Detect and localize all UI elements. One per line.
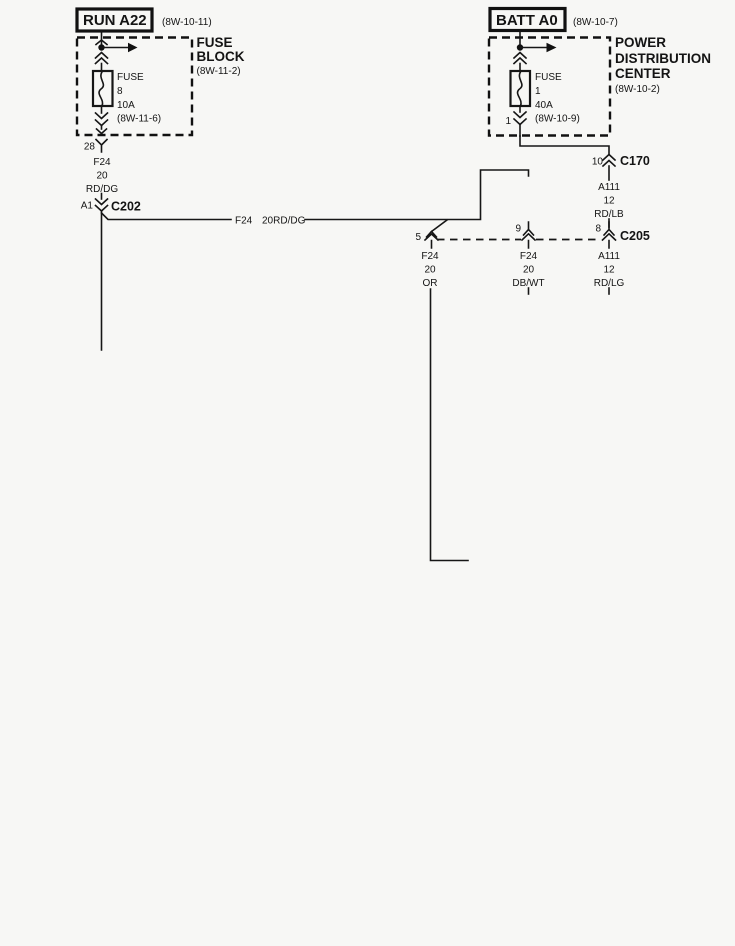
svg-text:40A: 40A bbox=[535, 100, 553, 111]
svg-text:BLOCK: BLOCK bbox=[197, 49, 245, 64]
wire from RUN A22 into fuse block bbox=[101, 31, 103, 44]
svg-text:20: 20 bbox=[523, 265, 535, 276]
pin 28 fork below fuse block bbox=[84, 140, 107, 153]
connector C202 (A1) bbox=[81, 199, 141, 214]
label FUSE BLOCK (8W-11-2) bbox=[197, 35, 245, 77]
svg-text:A111: A111 bbox=[598, 182, 620, 193]
svg-text:5: 5 bbox=[415, 232, 421, 243]
fuse F8 symbol bbox=[93, 71, 113, 106]
svg-text:BATT A0: BATT A0 bbox=[496, 12, 558, 29]
svg-text:FUSE: FUSE bbox=[535, 72, 562, 83]
svg-text:F24: F24 bbox=[520, 251, 538, 262]
svg-text:(8W-10-11): (8W-10-11) bbox=[162, 17, 212, 28]
svg-text:20: 20 bbox=[96, 171, 108, 182]
F24 OR wire down to blend door actuator branch bbox=[431, 289, 469, 561]
svg-text:10A: 10A bbox=[117, 100, 135, 111]
svg-text:F24: F24 bbox=[93, 157, 111, 168]
chevron at fuse block entry bbox=[96, 40, 107, 45]
fuse block dashed box bbox=[77, 38, 192, 136]
svg-text:CENTER: CENTER bbox=[615, 66, 671, 81]
svg-text:OR: OR bbox=[423, 278, 438, 289]
C205 pin 8 bbox=[595, 222, 615, 248]
wire node to fuse bbox=[101, 64, 103, 72]
RUN A22 label box bbox=[77, 9, 152, 31]
svg-text:28: 28 bbox=[84, 142, 96, 153]
BATT A0 label box bbox=[490, 9, 565, 31]
branch wire F24 to the right bbox=[102, 213, 232, 220]
wire to C202 bbox=[101, 194, 103, 200]
PDC dashed box bbox=[489, 38, 610, 136]
svg-text:20: 20 bbox=[424, 265, 436, 276]
pin 1 double chevron below fuse bbox=[505, 106, 526, 136]
wire to fuse bbox=[519, 64, 521, 72]
node with feed arrow bbox=[98, 43, 137, 52]
svg-text:DISTRIBUTION: DISTRIBUTION bbox=[615, 51, 711, 66]
svg-text:(8W-10-2): (8W-10-2) bbox=[615, 84, 660, 95]
svg-text:F24: F24 bbox=[235, 216, 253, 227]
fuse text FUSE 8 10A (8W-11-6) bbox=[117, 72, 161, 125]
svg-text:(8W-10-7): (8W-10-7) bbox=[573, 17, 618, 28]
svg-text:1: 1 bbox=[505, 116, 511, 127]
svg-text:POWER: POWER bbox=[615, 35, 666, 50]
double chevron below fuse bbox=[96, 106, 108, 134]
svg-text:8: 8 bbox=[117, 86, 123, 97]
svg-text:9: 9 bbox=[515, 224, 521, 235]
connector C170 (pin 10) bbox=[592, 154, 650, 168]
C205 pin 9 bbox=[515, 222, 535, 248]
svg-text:20RD/DG: 20RD/DG bbox=[262, 216, 306, 227]
svg-text:A111: A111 bbox=[598, 251, 620, 262]
horizontal wire continuing to right, up and over to C205 pin 9 bbox=[305, 170, 529, 220]
svg-text:C170: C170 bbox=[620, 154, 650, 168]
svg-text:12: 12 bbox=[603, 265, 615, 276]
svg-text:(8W-11-6): (8W-11-6) bbox=[117, 114, 161, 125]
svg-text:C202: C202 bbox=[111, 200, 141, 214]
fuse F1 symbol bbox=[511, 71, 531, 106]
svg-text:FUSE: FUSE bbox=[197, 35, 233, 50]
wire below C202 continuing down bbox=[101, 211, 103, 350]
wire label F24 20 DB/WT (below pin 9) bbox=[512, 251, 544, 289]
node with feed arrow bbox=[517, 43, 557, 52]
fuse text FUSE 1 40A (8W-10-9) bbox=[535, 72, 580, 125]
C205 dashed line (top row) bbox=[437, 239, 601, 241]
wire label A111 12 RD/LG (below pin 8) bbox=[594, 251, 625, 289]
wire below C170 bbox=[608, 166, 610, 180]
wire from BATT A0 into PDC bbox=[519, 31, 521, 45]
branch diagonal to C205 pin 5 bbox=[432, 220, 448, 232]
svg-text:(8W-10-9): (8W-10-9) bbox=[535, 114, 580, 125]
double chevron below node bbox=[514, 53, 526, 64]
wire to relay pin 4 bbox=[608, 288, 610, 294]
svg-text:C205: C205 bbox=[620, 229, 650, 243]
label POWER DISTRIBUTION CENTER (8W-10-2) bbox=[615, 35, 711, 95]
svg-text:1: 1 bbox=[535, 86, 541, 97]
wire label A111 12 RD/LB bbox=[594, 182, 624, 220]
svg-text:(8W-11-2): (8W-11-2) bbox=[197, 66, 241, 77]
wire to relay pin 5 bbox=[528, 288, 530, 294]
wire label F24 20RD/DG on horizontal run bbox=[235, 216, 306, 227]
svg-text:10: 10 bbox=[592, 157, 604, 168]
svg-text:F24: F24 bbox=[421, 251, 439, 262]
wire label F24 20 RD/DG (upper left column) bbox=[86, 157, 118, 195]
svg-text:8: 8 bbox=[595, 224, 601, 235]
C205 pin 5 bbox=[415, 232, 438, 249]
svg-text:FUSE: FUSE bbox=[117, 72, 144, 83]
wire label F24 20 OR (below pin 5) bbox=[421, 251, 439, 289]
wire from PDC down and over to C170 bbox=[520, 136, 609, 154]
svg-text:12: 12 bbox=[603, 196, 615, 207]
wire to C205 pin 8 bbox=[608, 219, 610, 227]
svg-text:A1: A1 bbox=[81, 201, 94, 212]
svg-text:RUN A22: RUN A22 bbox=[83, 12, 147, 29]
double chevron below node bbox=[96, 53, 108, 64]
